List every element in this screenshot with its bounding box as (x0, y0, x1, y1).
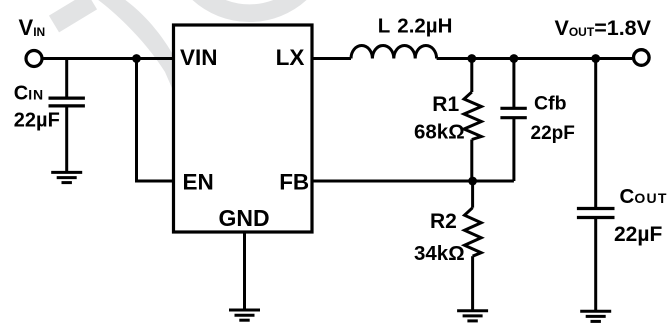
svg-text:34kΩ: 34kΩ (414, 242, 465, 265)
node FB junction (468, 177, 477, 186)
ground (CIN) (51, 172, 82, 182)
wire LX to inductor (314, 57, 352, 60)
svg-text:CIN: CIN (14, 82, 44, 104)
svg-text:R2: R2 (430, 210, 457, 233)
svg-text:22pF: 22pF (531, 123, 575, 144)
terminal VIN (input) (26, 51, 42, 67)
capacitor COUT (594, 59, 597, 209)
watermark chevron left arm (54, 1, 92, 24)
svg-text:FB: FB (279, 169, 309, 194)
ground (GND pin) (229, 310, 260, 320)
wire inductor to output (437, 57, 632, 60)
capacitor Cfb (512, 59, 515, 109)
wire GND pin (243, 232, 246, 310)
wire EN (137, 59, 173, 182)
svg-text:22µF: 22µF (14, 110, 60, 132)
op-amp U1 (regulator IC body) (174, 25, 313, 232)
ground (R2) (457, 311, 488, 321)
svg-text:GND: GND (219, 205, 270, 231)
node EN junction (132, 54, 141, 63)
svg-text:L2.2µH: L2.2µH (378, 14, 453, 37)
svg-text:EN: EN (183, 169, 214, 194)
terminal VOUT (output) (634, 50, 650, 66)
watermark curved band (94, 0, 188, 95)
node Cfb top (510, 54, 519, 63)
node COUT top (591, 54, 600, 63)
svg-text:VIN: VIN (19, 15, 46, 40)
svg-text:COUT: COUT (620, 185, 668, 208)
inductor L 2.2uH (351, 45, 437, 58)
node R1 top (467, 54, 476, 63)
watermark ring (174, 0, 326, 13)
svg-text:LX: LX (276, 45, 305, 70)
svg-text:VIN: VIN (180, 45, 218, 70)
resistor R1 (470, 59, 473, 93)
resistor R2 (471, 181, 474, 208)
svg-text:Cfb: Cfb (534, 93, 567, 115)
wire FB (314, 180, 514, 183)
wire input rail (44, 57, 173, 60)
capacitor CIN (65, 59, 68, 99)
svg-text:68kΩ: 68kΩ (414, 121, 465, 144)
ground (COUT) (580, 311, 611, 321)
svg-text:VOUT=1.8V: VOUT=1.8V (555, 16, 652, 40)
svg-text:R1: R1 (432, 93, 459, 116)
svg-text:22µF: 22µF (614, 223, 662, 246)
